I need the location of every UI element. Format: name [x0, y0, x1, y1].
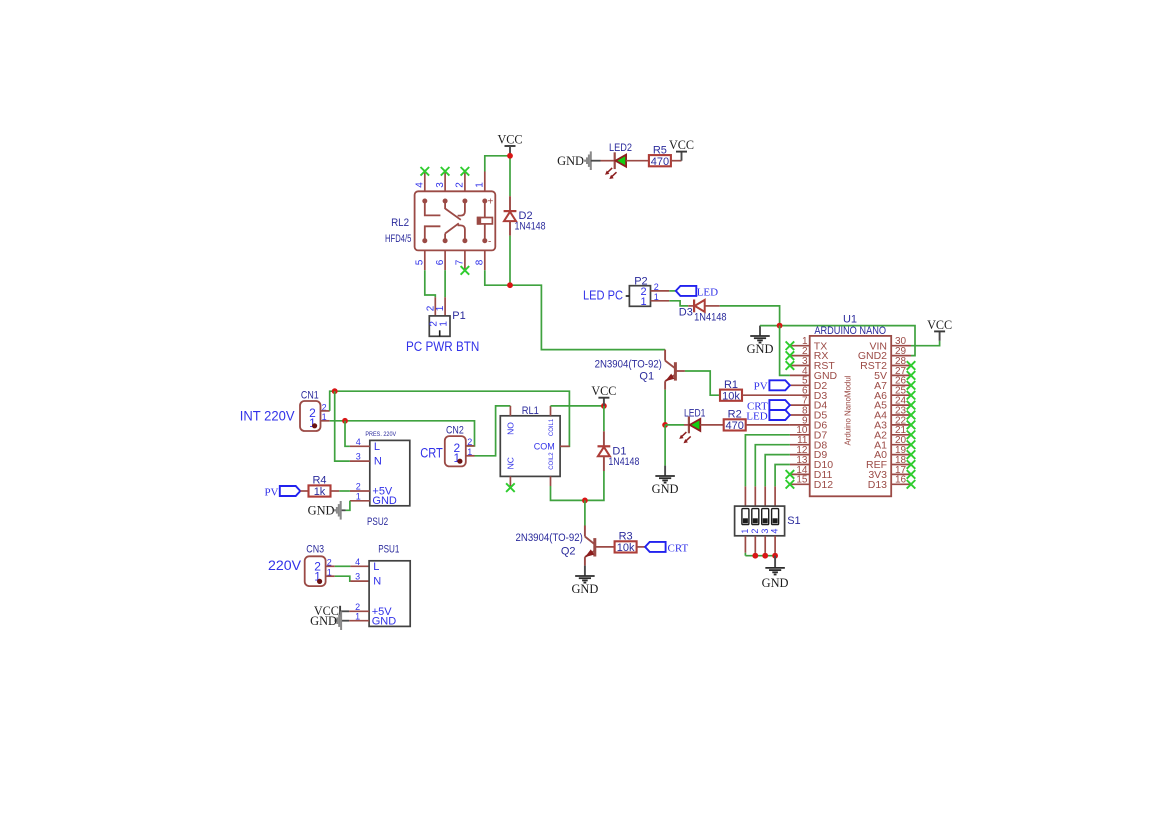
- svg-text:NC: NC: [506, 457, 516, 469]
- svg-text:1k: 1k: [314, 486, 326, 498]
- svg-text:COIL2: COIL2: [549, 452, 555, 470]
- svg-text:220V: 220V: [268, 558, 301, 573]
- svg-text:GND: GND: [310, 614, 337, 628]
- svg-text:RL1: RL1: [522, 405, 539, 417]
- svg-text:PV: PV: [754, 381, 768, 393]
- svg-text:GND: GND: [571, 582, 598, 596]
- svg-text:R5: R5: [653, 144, 667, 156]
- svg-text:1: 1: [435, 305, 446, 311]
- svg-text:N: N: [374, 456, 382, 468]
- svg-text:COM: COM: [534, 441, 555, 451]
- svg-text:2N3904(TO-92): 2N3904(TO-92): [516, 532, 583, 544]
- svg-text:GND: GND: [372, 616, 397, 628]
- svg-text:GND: GND: [557, 154, 584, 168]
- svg-text:D12: D12: [814, 479, 833, 491]
- svg-text:1N4148: 1N4148: [694, 312, 727, 324]
- svg-text:3: 3: [355, 572, 360, 582]
- svg-text:2: 2: [750, 529, 760, 534]
- svg-text:470: 470: [726, 420, 744, 432]
- svg-text:L: L: [373, 561, 379, 573]
- svg-text:4: 4: [356, 437, 361, 447]
- svg-text:4: 4: [770, 529, 780, 534]
- svg-text:10k: 10k: [722, 390, 740, 402]
- svg-text:1: 1: [356, 491, 361, 501]
- svg-text:PRES. 220V: PRES. 220V: [365, 431, 396, 438]
- svg-text:LED: LED: [697, 286, 718, 298]
- svg-text:ARDUINO NANO: ARDUINO NANO: [814, 325, 886, 337]
- svg-text:D3: D3: [679, 306, 693, 318]
- svg-text:6: 6: [435, 259, 446, 265]
- svg-text:16: 16: [895, 475, 907, 486]
- svg-text:PSU1: PSU1: [378, 544, 399, 556]
- svg-text:CRT: CRT: [420, 445, 443, 460]
- svg-text:LED: LED: [746, 410, 767, 422]
- svg-text:R4: R4: [312, 475, 326, 487]
- svg-text:2: 2: [356, 482, 361, 492]
- svg-text:D13: D13: [868, 479, 887, 491]
- svg-text:U1: U1: [843, 313, 857, 325]
- svg-text:1: 1: [740, 529, 750, 534]
- svg-text:3: 3: [435, 182, 446, 188]
- svg-text:R1: R1: [724, 379, 738, 391]
- svg-text:5: 5: [415, 259, 426, 265]
- svg-text:Q2: Q2: [561, 546, 576, 558]
- svg-text:CN3: CN3: [306, 544, 324, 556]
- svg-text:2N3904(TO-92): 2N3904(TO-92): [595, 359, 662, 371]
- svg-text:COIL1: COIL1: [549, 418, 555, 436]
- svg-text:-: -: [488, 236, 491, 247]
- svg-text:4: 4: [415, 182, 426, 188]
- svg-text:S1: S1: [787, 515, 800, 527]
- svg-text:GND: GND: [308, 504, 335, 518]
- svg-text:Q1: Q1: [639, 370, 654, 382]
- svg-text:CN2: CN2: [446, 425, 464, 437]
- svg-text:L: L: [374, 441, 380, 453]
- svg-text:R3: R3: [619, 531, 633, 543]
- svg-text:2: 2: [455, 182, 466, 188]
- svg-text:+: +: [488, 197, 494, 208]
- svg-text:RL2: RL2: [391, 217, 409, 229]
- svg-text:LED2: LED2: [609, 142, 632, 154]
- svg-text:HFD4/5: HFD4/5: [385, 233, 411, 245]
- svg-text:3: 3: [760, 529, 770, 534]
- svg-text:10k: 10k: [617, 542, 635, 554]
- svg-text:N: N: [373, 576, 381, 588]
- svg-text:VCC: VCC: [591, 384, 616, 398]
- svg-text:7: 7: [455, 259, 466, 265]
- svg-text:4: 4: [355, 557, 360, 567]
- svg-text:VCC: VCC: [927, 318, 952, 332]
- svg-text:1: 1: [438, 321, 449, 327]
- svg-text:470: 470: [651, 156, 669, 168]
- svg-text:PSU2: PSU2: [367, 516, 388, 528]
- svg-text:CN1: CN1: [301, 390, 319, 402]
- svg-text:LED PC: LED PC: [583, 288, 623, 303]
- svg-text:VCC: VCC: [669, 138, 694, 152]
- svg-text:3: 3: [356, 452, 361, 462]
- svg-text:1: 1: [475, 182, 486, 188]
- svg-text:GND: GND: [762, 576, 789, 590]
- svg-text:GND: GND: [652, 482, 679, 496]
- svg-text:1N4148: 1N4148: [515, 221, 546, 233]
- svg-text:1N4148: 1N4148: [608, 456, 639, 468]
- svg-text:NO: NO: [506, 422, 516, 435]
- svg-text:Arduino NanoModul: Arduino NanoModul: [843, 375, 853, 445]
- svg-text:P1: P1: [452, 310, 465, 322]
- svg-text:R2: R2: [728, 409, 742, 421]
- svg-text:1: 1: [640, 296, 646, 308]
- svg-text:PV: PV: [264, 486, 278, 498]
- svg-text:8: 8: [475, 259, 486, 265]
- svg-text:PC PWR BTN: PC PWR BTN: [406, 339, 479, 354]
- svg-text:INT 220V: INT 220V: [240, 409, 295, 424]
- svg-text:GND: GND: [372, 495, 397, 507]
- svg-text:15: 15: [796, 475, 808, 486]
- svg-text:LED1: LED1: [684, 407, 705, 419]
- svg-text:GND: GND: [747, 342, 774, 356]
- svg-text:CRT: CRT: [668, 542, 689, 554]
- svg-text:VCC: VCC: [497, 132, 522, 146]
- svg-text:2: 2: [355, 602, 360, 612]
